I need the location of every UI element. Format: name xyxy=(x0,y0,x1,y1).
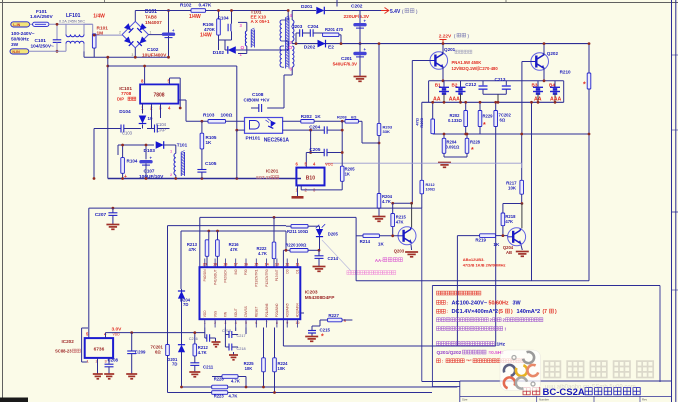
svg-text:C216: C216 xyxy=(189,337,198,341)
svg-text:Q201: Q201 xyxy=(444,47,456,52)
svg-text:P13 INT: P13 INT xyxy=(275,269,279,281)
svg-text:C207: C207 xyxy=(95,212,107,218)
svg-text:3W: 3W xyxy=(513,300,522,306)
svg-text:R214: R214 xyxy=(360,239,371,244)
svg-text:10: 10 xyxy=(148,116,153,121)
svg-text:1: 1 xyxy=(150,31,152,35)
svg-text:100-240V~: 100-240V~ xyxy=(11,31,35,37)
svg-text:C209: C209 xyxy=(135,350,146,355)
svg-text:Size: Size xyxy=(462,398,468,402)
svg-text:AAA: AAA xyxy=(449,96,460,102)
svg-text:*: * xyxy=(583,82,586,89)
svg-text:N-IN: N-IN xyxy=(12,50,20,54)
svg-text:DC1.4V×400mA*2: DC1.4V×400mA*2 xyxy=(452,309,499,315)
svg-text:Q203: Q203 xyxy=(394,249,405,254)
svg-text:10K: 10K xyxy=(245,366,253,371)
svg-text:R103: R103 xyxy=(203,113,215,119)
svg-text:PH101: PH101 xyxy=(246,136,261,142)
svg-text:IN0: IN0 xyxy=(234,269,238,274)
svg-text:47K: 47K xyxy=(505,219,513,224)
svg-text:6736: 6736 xyxy=(94,347,105,353)
svg-text:100Ω: 100Ω xyxy=(298,229,309,234)
svg-text:4.7K: 4.7K xyxy=(231,379,240,384)
svg-text:10K: 10K xyxy=(278,366,286,371)
svg-text:C212: C212 xyxy=(465,82,476,87)
svg-text:*: * xyxy=(471,147,474,154)
svg-text::: : xyxy=(447,309,448,314)
svg-text:100Ω: 100Ω xyxy=(221,113,233,119)
svg-text:1K: 1K xyxy=(206,140,213,145)
svg-text:VSS: VSS xyxy=(213,311,217,317)
svg-text:10UF/400V: 10UF/400V xyxy=(142,53,167,59)
svg-text:R210: R210 xyxy=(560,70,571,75)
svg-text:R201: R201 xyxy=(325,27,336,32)
svg-text:C202: C202 xyxy=(351,4,363,10)
svg-text:C214: C214 xyxy=(328,256,339,261)
svg-text:5.4V: 5.4V xyxy=(390,9,401,15)
svg-text:7D: 7D xyxy=(172,362,177,367)
svg-text:47K: 47K xyxy=(230,247,238,252)
svg-text:AC100-240V~: AC100-240V~ xyxy=(452,300,488,306)
svg-text:470: 470 xyxy=(336,27,344,32)
svg-text:C217: C217 xyxy=(237,334,246,338)
svg-text:B10: B10 xyxy=(306,176,315,182)
svg-text:R228: R228 xyxy=(470,140,481,145)
svg-text:uuu.aib0aobo.cn-SSmb.5u09.com: uuu.aib0aobo.cn-SSmb.5u09.com xyxy=(545,385,636,391)
svg-text:C208: C208 xyxy=(108,358,119,363)
svg-text:1K: 1K xyxy=(315,114,322,119)
svg-text:1.6A/250V: 1.6A/250V xyxy=(30,14,53,20)
svg-text:100Ω: 100Ω xyxy=(296,243,307,248)
svg-text:SC88-23: SC88-23 xyxy=(55,349,72,354)
svg-text:1M: 1M xyxy=(97,31,104,37)
svg-text:R223: R223 xyxy=(214,394,225,399)
svg-text:"*": "*" xyxy=(466,359,472,364)
svg-text:DIP: DIP xyxy=(117,97,124,102)
svg-text:C204: C204 xyxy=(308,24,319,29)
svg-text:VCC: VCC xyxy=(325,163,333,167)
svg-text:50/60Hz: 50/60Hz xyxy=(11,37,29,43)
svg-text::: : xyxy=(447,300,448,305)
svg-text:ABo12UB3.: ABo12UB3. xyxy=(463,257,485,262)
svg-text:B2: B2 xyxy=(452,83,458,88)
svg-text:C107: C107 xyxy=(144,169,155,174)
svg-text:C205: C205 xyxy=(309,147,320,152)
svg-text:470K: 470K xyxy=(204,27,216,32)
svg-text:4.7K: 4.7K xyxy=(258,251,267,256)
svg-text:33K: 33K xyxy=(383,129,390,134)
svg-text:P30: P30 xyxy=(244,269,248,275)
svg-text:R203: R203 xyxy=(419,117,424,127)
svg-text:1/4W: 1/4W xyxy=(200,33,212,39)
svg-text:XIN: XIN xyxy=(224,311,228,317)
svg-text:140mA*2: 140mA*2 xyxy=(517,309,541,315)
svg-text:L-IN: L-IN xyxy=(13,23,20,27)
svg-text:RESET: RESET xyxy=(255,307,259,318)
svg-text:D0: D0 xyxy=(285,269,289,273)
svg-text:*: * xyxy=(483,122,486,129)
svg-text:AA: AA xyxy=(433,96,441,102)
svg-text:(7: (7 xyxy=(543,309,548,315)
svg-text:4D3/AIN5: 4D3/AIN5 xyxy=(285,303,289,317)
svg-text:R212: R212 xyxy=(426,183,435,187)
svg-text:2.22V: 2.22V xyxy=(439,34,452,40)
svg-text:0.133Ω: 0.133Ω xyxy=(448,118,462,123)
svg-text:P21/AIN6: P21/AIN6 xyxy=(265,303,269,317)
svg-text:Q201/Q202: Q201/Q202 xyxy=(437,350,462,356)
svg-text:C104: C104 xyxy=(156,122,167,127)
svg-text:D201: D201 xyxy=(301,4,313,10)
svg-text:XOUT: XOUT xyxy=(234,308,238,317)
svg-text:7708: 7708 xyxy=(121,91,132,96)
svg-text:D103: D103 xyxy=(144,148,156,154)
svg-text:R102: R102 xyxy=(180,3,192,9)
svg-text:Number: Number xyxy=(539,398,549,402)
svg-text:B1: B1 xyxy=(435,83,441,88)
svg-text:7808: 7808 xyxy=(153,93,164,99)
svg-text:1K: 1K xyxy=(493,242,500,247)
svg-text:C211: C211 xyxy=(203,365,214,370)
svg-text:VDD: VDD xyxy=(113,332,121,336)
svg-text:C105: C105 xyxy=(205,161,217,167)
svg-text:6Ω: 6Ω xyxy=(155,350,161,355)
svg-text:A X 05+1: A X 05+1 xyxy=(251,19,271,24)
svg-text:D202: D202 xyxy=(304,45,316,51)
svg-text:50/60Hz: 50/60Hz xyxy=(489,300,509,306)
svg-text:10K: 10K xyxy=(508,186,517,191)
svg-text:1/4W: 1/4W xyxy=(93,14,105,20)
svg-text:SOT-23: SOT-23 xyxy=(256,175,271,180)
svg-text:D104: D104 xyxy=(119,109,131,115)
svg-text:C210: C210 xyxy=(222,329,231,333)
svg-text:AB: AB xyxy=(506,250,512,255)
svg-text:104/250V~: 104/250V~ xyxy=(31,44,55,50)
svg-text:M54308D4FP: M54308D4FP xyxy=(305,295,335,301)
svg-text:1K: 1K xyxy=(345,172,350,177)
svg-text:C104: C104 xyxy=(218,16,229,21)
svg-text:D102: D102 xyxy=(213,50,225,56)
svg-text:R211: R211 xyxy=(287,229,297,234)
svg-text:4D2/AIN4: 4D2/AIN4 xyxy=(296,303,300,317)
svg-text:7D: 7D xyxy=(183,302,188,307)
svg-text:C103: C103 xyxy=(122,131,133,136)
svg-text:B3: B3 xyxy=(532,83,538,88)
svg-text:1/4W: 1/4W xyxy=(189,14,201,20)
svg-text:P41/SOUT: P41/SOUT xyxy=(213,269,217,284)
svg-text:P42/SCK: P42/SCK xyxy=(224,269,228,283)
svg-text:47Ω: 47Ω xyxy=(415,117,420,125)
svg-text:F101: F101 xyxy=(36,9,47,15)
svg-text:C201: C201 xyxy=(341,56,352,61)
svg-text:IC203: IC203 xyxy=(305,290,318,296)
svg-text:C101: C101 xyxy=(35,38,47,44)
svg-text:3: 3 xyxy=(132,53,134,57)
svg-text:NEC2561A: NEC2561A xyxy=(264,138,290,144)
svg-text:T101: T101 xyxy=(177,143,188,148)
svg-text:D205: D205 xyxy=(328,232,339,237)
svg-text:C218: C218 xyxy=(237,347,246,351)
svg-text:R220: R220 xyxy=(285,243,296,248)
svg-text:C215: C215 xyxy=(320,328,331,333)
svg-text:Q202: Q202 xyxy=(547,51,559,56)
svg-text:PNA1.5W 450K: PNA1.5W 450K xyxy=(452,60,482,65)
svg-text:CIB0IM +KV: CIB0IM +KV xyxy=(244,98,271,103)
svg-text:*: * xyxy=(321,334,324,341)
svg-text:4.7K: 4.7K xyxy=(382,199,391,204)
svg-text:1Hz: 1Hz xyxy=(497,341,506,347)
svg-text:VDD: VDD xyxy=(203,310,207,317)
svg-text:100Ω: 100Ω xyxy=(426,188,435,192)
svg-text:R104: R104 xyxy=(127,159,138,164)
svg-text:47K: 47K xyxy=(396,220,404,225)
svg-text:540UF/6.3V: 540UF/6.3V xyxy=(333,62,358,67)
svg-text:12V/B2Q.1W/β=270-480: 12V/B2Q.1W/β=270-480 xyxy=(452,66,499,71)
svg-text:0.2A 245N 5KC: 0.2A 245N 5KC xyxy=(59,20,85,24)
svg-text:47K: 47K xyxy=(189,247,197,252)
svg-text:LF101: LF101 xyxy=(66,13,81,19)
svg-text::: : xyxy=(442,359,443,364)
svg-text:TAB8: TAB8 xyxy=(145,15,157,20)
svg-text:2: 2 xyxy=(119,31,121,35)
svg-text:B4: B4 xyxy=(549,83,555,88)
svg-text:P12/CNTR0: P12/CNTR0 xyxy=(265,269,269,286)
svg-text:P40/SIN: P40/SIN xyxy=(203,269,207,282)
svg-text:Rev: Rev xyxy=(642,398,648,402)
svg-text:CNVSS: CNVSS xyxy=(244,306,248,317)
svg-text:R208: R208 xyxy=(337,115,347,120)
svg-text:CAP: CAP xyxy=(157,128,166,133)
svg-text:C203: C203 xyxy=(291,24,302,29)
svg-text:4.7K: 4.7K xyxy=(229,394,238,399)
svg-text:IC201: IC201 xyxy=(266,169,279,174)
svg-text:D1: D1 xyxy=(296,269,300,273)
svg-text:0.091Ω: 0.091Ω xyxy=(446,145,460,150)
svg-text:47Ω/B 1K/B 2W/90MHz: 47Ω/B 1K/B 2W/90MHz xyxy=(463,262,506,267)
svg-text:IC202: IC202 xyxy=(62,339,75,344)
svg-text:4.7K: 4.7K xyxy=(198,350,207,355)
svg-text:3W: 3W xyxy=(11,42,19,48)
svg-text:6Ω: 6Ω xyxy=(500,118,506,123)
svg-text:R227: R227 xyxy=(328,313,339,318)
svg-text:6Ω: 6Ω xyxy=(351,115,357,120)
svg-text:C102: C102 xyxy=(147,47,159,53)
svg-text:E2: E2 xyxy=(328,45,334,51)
svg-text:AA-: AA- xyxy=(375,258,383,263)
svg-text:1K: 1K xyxy=(378,242,385,247)
svg-text:R229: R229 xyxy=(483,114,494,119)
svg-text:(5: (5 xyxy=(499,309,504,315)
svg-text:P20/AIN0: P20/AIN0 xyxy=(275,303,279,317)
svg-text:R202: R202 xyxy=(301,114,312,119)
svg-text:P31/CNTR1: P31/CNTR1 xyxy=(255,269,259,286)
svg-text:C213: C213 xyxy=(495,77,506,82)
svg-text:0.47K: 0.47K xyxy=(199,3,212,9)
svg-text:1N4007: 1N4007 xyxy=(145,20,162,26)
svg-text:R219: R219 xyxy=(475,238,486,243)
